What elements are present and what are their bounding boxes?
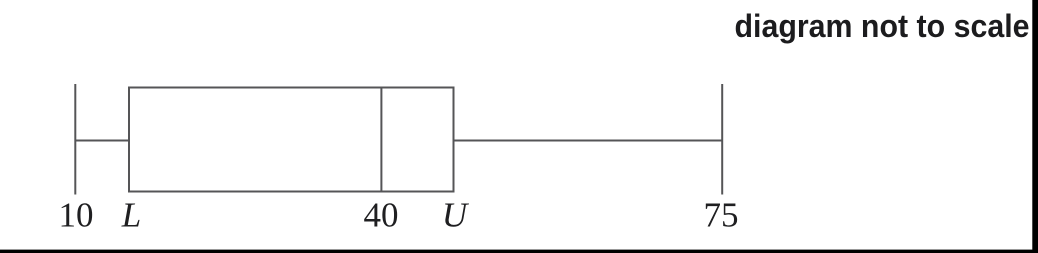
right whisker line xyxy=(454,140,723,142)
svg-text:40: 40 xyxy=(364,196,399,235)
svg-text:L: L xyxy=(121,196,141,235)
right whisker cap (max = 75) xyxy=(721,84,723,195)
bottom black border bar xyxy=(0,250,1038,253)
left whisker cap (min = 10) xyxy=(74,84,76,195)
svg-text:diagram not to scale: diagram not to scale xyxy=(735,8,1030,44)
median line (40) xyxy=(380,88,382,192)
svg-text:75: 75 xyxy=(704,196,739,235)
svg-text:U: U xyxy=(442,196,470,235)
box (L to U) xyxy=(129,88,454,192)
right black border bar xyxy=(1032,0,1038,253)
left whisker line xyxy=(75,140,129,142)
svg-text:10: 10 xyxy=(59,196,94,235)
